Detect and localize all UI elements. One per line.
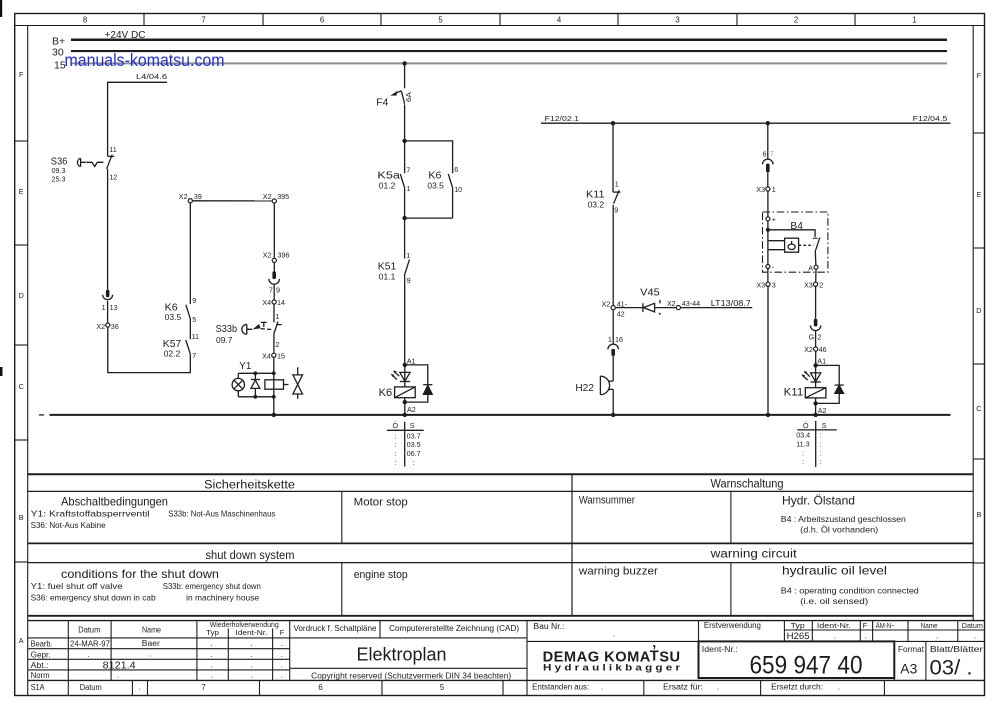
svg-text:Bearb.: Bearb. (31, 640, 53, 649)
connector 7|9 pin (272, 271, 276, 279)
svg-text:7: 7 (201, 683, 205, 692)
svg-text:F: F (977, 71, 982, 80)
Y1 top rail (238, 372, 273, 374)
wire - terminal to X3:3 (767, 269, 769, 283)
wire X3:3 to bus (767, 286, 769, 415)
svg-text:A: A (808, 263, 813, 272)
float stub top (768, 240, 785, 242)
svg-text:11: 11 (109, 145, 116, 154)
switch S36 NC contact (107, 155, 115, 169)
relay coil K11 (805, 388, 826, 398)
svg-text:Copyright reserved (Schutzverm: Copyright reserved (Schutzvermerk DIN 34… (311, 671, 511, 680)
svg-text:.: . (211, 650, 213, 659)
wire to K51 (404, 218, 406, 258)
svg-text:Datum: Datum (80, 683, 102, 692)
wire X2:46 to K11 coil A1 (815, 351, 817, 365)
K6 flyback diode branch (405, 365, 433, 402)
svg-text:09.7: 09.7 (216, 336, 233, 345)
K11 flyback diode branch (816, 365, 844, 403)
svg-text:395: 395 (277, 192, 289, 201)
fuse F4 (401, 91, 404, 104)
svg-text:03.4: 03.4 (796, 431, 810, 440)
connector 7|9 socket arc (269, 279, 280, 284)
svg-text:.: . (613, 630, 615, 639)
K11 LED indicator (802, 371, 821, 382)
K11 contact reference table (796, 421, 837, 467)
svg-text:03.5: 03.5 (407, 440, 421, 449)
svg-text:1: 1 (608, 335, 612, 344)
Y1 bottom rail (238, 396, 273, 398)
svg-text:Sicherheitskette: Sicherheitskette (204, 480, 295, 492)
svg-text:1: 1 (406, 251, 410, 260)
svg-text:.: . (211, 671, 213, 680)
contact K57 (186, 340, 191, 354)
svg-text:K6: K6 (379, 387, 393, 399)
svg-text:H y d r a u l i k b a g g e r: H y d r a u l i k b a g g e r (543, 663, 680, 674)
svg-text:Entstanden aus:: Entstanden aus: (532, 683, 589, 692)
svg-text::: : (820, 448, 822, 457)
node X2:41/42 (611, 306, 615, 310)
B4 float sensor box (785, 238, 799, 252)
svg-text:Abt.:: Abt.: (31, 661, 49, 670)
wire top rail to K6 branch (405, 141, 453, 173)
svg-text:X3: X3 (756, 280, 765, 289)
B4 float mechanical dashed link (799, 244, 814, 246)
svg-text:K6: K6 (165, 301, 178, 313)
wire S33b to X4:15 (273, 335, 275, 354)
svg-text:X2: X2 (263, 251, 272, 260)
svg-text:Typ: Typ (791, 621, 805, 630)
svg-text:K57: K57 (163, 338, 182, 350)
bottom bus leader dash (39, 414, 44, 416)
svg-text:Ersatz für:: Ersatz für: (663, 683, 703, 692)
svg-text:S33b: emergency shut down: S33b: emergency shut down (163, 581, 261, 591)
S36 pushbutton actuator (77, 158, 103, 166)
svg-text:7: 7 (192, 351, 196, 360)
svg-text:F4: F4 (376, 97, 388, 109)
svg-text:-: - (772, 263, 775, 272)
svg-text:K51: K51 (378, 261, 397, 273)
wire F4 to K5a junction (404, 104, 406, 141)
contact K6 (03.5) (186, 305, 191, 319)
svg-text:7: 7 (406, 165, 410, 174)
svg-text:F: F (863, 621, 868, 630)
svg-text:(d.h. Öl vorhanden): (d.h. Öl vorhanden) (800, 524, 878, 534)
connector 6|7 socket arc (763, 159, 774, 164)
wire K6 branch down (452, 188, 454, 218)
svg-text:30: 30 (52, 46, 64, 58)
svg-text:X4: X4 (262, 298, 271, 307)
svg-text:H265: H265 (787, 631, 810, 641)
connector 6|7 pin (766, 164, 770, 173)
contact K51 (404, 259, 409, 276)
relay coil K6 (395, 387, 416, 398)
node X2:46 (814, 347, 818, 351)
left margin row letters (19, 70, 24, 645)
svg-text:9: 9 (276, 286, 280, 295)
svg-text:+: + (772, 215, 776, 224)
svg-text:Ident-Nr.: Ident-Nr. (235, 628, 267, 637)
svg-text:.: . (251, 650, 253, 659)
svg-text:C: C (976, 404, 981, 413)
svg-text:.: . (251, 639, 253, 648)
svg-text:Name: Name (921, 621, 938, 630)
wire X4:14 to S33b (273, 304, 275, 322)
connector 1|13 socket arc (103, 295, 113, 300)
svg-text:.: . (717, 683, 719, 692)
svg-text:.: . (281, 671, 283, 680)
svg-text:Computererstellte Zeichnung (C: Computererstellte Zeichnung (CAD) (389, 624, 519, 633)
svg-text:46: 46 (819, 345, 827, 354)
B4 terminal A (814, 265, 818, 269)
svg-text:A1: A1 (407, 356, 416, 365)
svg-text:15: 15 (277, 351, 285, 360)
wire X3:1 to B4 (767, 191, 769, 217)
svg-text:S: S (822, 421, 827, 430)
svg-text:X4: X4 (262, 351, 271, 360)
S33b actuator dashed link (261, 328, 273, 331)
connector G|2 pin (814, 319, 818, 327)
svg-text:.: . (150, 649, 152, 658)
svg-text:Ö: Ö (393, 421, 399, 430)
svg-text:S1A: S1A (31, 683, 46, 692)
svg-text:2: 2 (794, 16, 798, 25)
svg-text:A2: A2 (818, 406, 827, 415)
bus line 15 (71, 62, 947, 64)
svg-text:Typ: Typ (206, 628, 219, 637)
junction dot K6 A2 (403, 400, 407, 404)
svg-text:D: D (19, 291, 24, 300)
svg-text::: : (394, 449, 396, 458)
connector 1|16 socket arc (608, 344, 619, 349)
wire + to internal junction (767, 221, 769, 230)
Y1 solenoid coil (265, 380, 284, 389)
wire X2:41 down to connector 1|16 (612, 310, 614, 344)
svg-text:1: 1 (102, 303, 106, 312)
wire K11 branch from F12 (612, 123, 614, 192)
svg-text:10: 10 (454, 185, 462, 194)
svg-text:X2: X2 (96, 322, 105, 331)
wire K6 contact up to X2:39 (189, 203, 191, 304)
node X3:3 (766, 282, 770, 286)
svg-text:8: 8 (83, 16, 87, 25)
svg-text:S33b: S33b (216, 323, 238, 335)
svg-text:.: . (117, 670, 119, 679)
wire connector to X3:1 (767, 172, 769, 187)
svg-text:43-44: 43-44 (682, 299, 700, 308)
junction dot K5a/K6 top (402, 139, 406, 143)
connector G|2 socket arc (810, 325, 820, 330)
svg-text:D: D (976, 306, 981, 315)
B4 level contact (813, 238, 820, 252)
svg-text:engine stop: engine stop (354, 569, 408, 581)
svg-text:X2: X2 (804, 345, 813, 354)
wire to LT13 (681, 307, 753, 309)
svg-text:Baer: Baer (142, 639, 160, 648)
svg-text:8121.4: 8121.4 (103, 660, 136, 671)
svg-text:.: . (281, 639, 283, 648)
svg-text:13: 13 (110, 303, 118, 312)
svg-text:Name: Name (142, 625, 161, 634)
svg-text:Norm: Norm (31, 671, 50, 680)
node X2:43-44 (676, 306, 680, 310)
inner border top line (15, 25, 985, 27)
svg-text:1: 1 (406, 184, 410, 193)
Y1 valve symbol (293, 367, 303, 399)
svg-text:.: . (865, 632, 867, 641)
Y1 suppressor diode (251, 373, 260, 397)
repeat-use dots column (211, 639, 283, 679)
node X3:1 (766, 187, 770, 191)
wire S36 to connector 1|13 (107, 169, 109, 290)
svg-text:F12/02.1: F12/02.1 (545, 114, 580, 123)
connector 1|13 pin (106, 290, 110, 297)
svg-text:02.2: 02.2 (164, 349, 181, 358)
svg-text:Elektroplan: Elektroplan (357, 644, 447, 665)
svg-text:6: 6 (763, 150, 767, 159)
svg-text:F: F (280, 628, 285, 637)
S33b pushbutton actuator (242, 324, 252, 334)
svg-text:K11: K11 (586, 189, 605, 201)
svg-text:L4/04.6: L4/04.6 (136, 72, 167, 81)
wire X2:36 down and loop bottom (108, 327, 191, 372)
contact K5a (404, 141, 406, 173)
svg-text:6: 6 (320, 16, 324, 25)
Ident-Nr emphasized box (699, 641, 895, 678)
wire K11 to X2:41 (612, 205, 614, 306)
junction dot K6 A1 (403, 363, 407, 367)
svg-text:warning circuit: warning circuit (710, 549, 798, 561)
node X2:36 (106, 323, 110, 327)
svg-text:5: 5 (192, 315, 196, 324)
svg-text:39: 39 (194, 192, 202, 201)
wire X4:15 down through Y1 to bus (273, 357, 275, 415)
svg-text:.: . (251, 671, 253, 680)
svg-text:Hydr. Ölstand: Hydr. Ölstand (782, 494, 855, 508)
svg-text:Format: Format (898, 645, 925, 654)
svg-text:X2: X2 (263, 192, 272, 201)
wire X2:39 to X2:395 (192, 200, 272, 202)
svg-text:B4 : Arbeitszustand geschlosse: B4 : Arbeitszustand geschlossen (781, 514, 906, 524)
svg-text:1: 1 (615, 180, 619, 189)
svg-text:K5a: K5a (377, 170, 400, 182)
wire X2:395 to X2:396 (273, 203, 275, 258)
svg-text:2: 2 (819, 280, 823, 289)
B4 terminal - (766, 265, 770, 269)
top margin column ticks (144, 14, 855, 26)
svg-text:Blatt/Blätter: Blatt/Blätter (930, 645, 984, 654)
node X3:2 (814, 282, 818, 286)
svg-text:01.1: 01.1 (379, 273, 396, 282)
svg-text:.: . (974, 632, 976, 641)
svg-text:G: G (809, 332, 815, 341)
svg-text:Y1: Kraftstoffabsperrventil: Y1: Kraftstoffabsperrventil (31, 509, 150, 519)
svg-text:5: 5 (438, 16, 443, 25)
bottom strip cell dividers (68, 680, 884, 695)
svg-text:warning buzzer: warning buzzer (578, 566, 658, 578)
svg-text:03.5: 03.5 (165, 313, 182, 322)
wire internal top rail to contact (768, 230, 815, 237)
svg-text:conditions for the shut down: conditions for the shut down (61, 567, 219, 581)
node junction F12/B4 (766, 121, 770, 125)
svg-text:S: S (410, 421, 415, 430)
wire K51 to K6 coil (404, 276, 406, 365)
right margin row letters (976, 71, 981, 519)
svg-text:.: . (211, 660, 213, 669)
svg-text:.: . (211, 639, 213, 648)
svg-text:03.5: 03.5 (427, 181, 444, 190)
svg-text:.: . (251, 660, 253, 669)
svg-text:X2: X2 (602, 299, 611, 308)
svg-text:Ö: Ö (803, 421, 809, 430)
svg-text:(i.e. oil sensed): (i.e. oil sensed) (800, 596, 868, 606)
svg-text:1: 1 (275, 312, 279, 321)
svg-text:Motor stop: Motor stop (354, 497, 408, 509)
svg-text:1: 1 (912, 16, 916, 25)
svg-text:01.2: 01.2 (379, 181, 396, 190)
svg-text:V45: V45 (640, 287, 660, 299)
svg-text:.: . (834, 632, 836, 641)
junction dot H22/bus (611, 413, 615, 417)
svg-text:S36: Not-Aus Kabine: S36: Not-Aus Kabine (31, 520, 106, 530)
wire bottom rail of parallel pair (405, 217, 453, 219)
bottom strip column numbers (201, 683, 445, 692)
svg-text:Ident-Nr.:: Ident-Nr.: (702, 645, 738, 654)
svg-text:B4 : operating condition conne: B4 : operating condition connected (781, 586, 919, 596)
svg-text::: : (802, 457, 804, 466)
svg-text:X2: X2 (179, 192, 188, 201)
svg-text:S36: emergency shut down in ca: S36: emergency shut down in cab (31, 592, 156, 602)
svg-text:14: 14 (277, 298, 285, 307)
svg-text:B: B (19, 513, 24, 522)
svg-text:.: . (139, 682, 141, 691)
bottom bus wire (0V) (50, 414, 951, 416)
bus line 30 (71, 50, 947, 52)
svg-text:03.2: 03.2 (588, 200, 605, 209)
svg-text:7: 7 (770, 149, 774, 158)
svg-text:7: 7 (269, 286, 273, 295)
svg-text::: : (394, 458, 396, 467)
svg-text::: : (820, 457, 822, 466)
svg-text:K11: K11 (784, 387, 804, 399)
inner border left (27, 26, 29, 696)
svg-text:25.3: 25.3 (52, 174, 66, 183)
svg-text:12: 12 (109, 173, 117, 182)
wire X2:396 to connector 7|9 (273, 263, 275, 272)
svg-text:3: 3 (772, 280, 776, 289)
svg-text:4: 4 (557, 16, 562, 25)
svg-text:Vordruck f. Schaltpläne: Vordruck f. Schaltpläne (294, 624, 377, 633)
wire B4 branch from F12 (767, 123, 769, 159)
svg-text:Ersetzt durch:: Ersetzt durch: (771, 683, 823, 692)
junction dot K11 A1 (813, 363, 817, 367)
svg-text:Datum: Datum (78, 625, 100, 634)
svg-text:B: B (977, 510, 982, 519)
svg-text:06.7: 06.7 (407, 449, 421, 458)
svg-text:396: 396 (278, 251, 290, 260)
wire through LED to K11 coil (815, 365, 817, 387)
svg-text:03/ .: 03/ . (930, 657, 973, 680)
svg-text:X2: X2 (667, 299, 676, 308)
svg-text:Y1: fuel shut off valve: Y1: fuel shut off valve (31, 581, 123, 591)
wire between K57 and K6 contacts (189, 319, 191, 340)
wire L4 stub horizontal (108, 82, 167, 156)
wire connector to X2:36 (107, 301, 109, 323)
svg-text:9: 9 (614, 206, 618, 215)
svg-text:5: 5 (440, 683, 445, 692)
svg-text:H22: H22 (575, 382, 594, 394)
scan artifact top-left edge (0, 0, 2, 17)
wire 15 bus to fuse F4 (404, 63, 406, 88)
S33b plunger tee (261, 322, 267, 327)
junction dot X3:3/bus (766, 413, 770, 417)
Y1 coil link stub (284, 384, 289, 386)
svg-text:2: 2 (817, 332, 821, 341)
svg-text:Warnsummer: Warnsummer (579, 494, 635, 506)
junction dot K6/bus (403, 413, 407, 417)
K6 contact reference table (387, 421, 424, 467)
junction dot K5a/K6 bottom (402, 216, 406, 220)
svg-text:Y1: Y1 (239, 360, 251, 372)
wire connector to X4:14 (273, 285, 275, 300)
svg-text::: : (820, 440, 822, 449)
connector 1|16 pin (611, 349, 615, 356)
diode V45 (615, 303, 676, 312)
left margin row ticks (15, 141, 28, 562)
junction dots Y1 top rail (254, 371, 258, 375)
svg-text:E: E (977, 190, 982, 199)
node X2:39 (188, 199, 192, 203)
svg-text:2: 2 (275, 340, 279, 349)
right margin row ticks (973, 133, 984, 563)
node X2:396 (272, 258, 276, 262)
node X4:15 (272, 353, 276, 357)
svg-text:.: . (88, 650, 90, 659)
svg-text:11: 11 (192, 332, 199, 341)
junction dots Y1 bottom rail (254, 395, 258, 399)
svg-text:.: . (601, 683, 603, 692)
svg-text:X3: X3 (804, 280, 813, 289)
svg-text:Warnschaltung: Warnschaltung (711, 479, 784, 491)
svg-text:A: A (19, 636, 24, 645)
switch S33b contact (274, 322, 282, 335)
svg-text:hydraulic oil level: hydraulic oil level (782, 564, 887, 578)
svg-text:Erstverwendung: Erstverwendung (704, 621, 761, 630)
svg-text:6: 6 (454, 165, 458, 174)
S33b actuator wedge (253, 324, 261, 330)
svg-text:A2: A2 (407, 405, 416, 414)
svg-text::: : (394, 440, 396, 449)
node X4:14 (272, 300, 276, 304)
svg-text::: : (802, 448, 804, 457)
svg-text:1: 1 (772, 185, 776, 194)
svg-text:Gepr.: Gepr. (31, 650, 51, 659)
svg-text:LT13/08.7: LT13/08.7 (711, 299, 751, 308)
svg-text:A1: A1 (817, 357, 826, 366)
svg-text::: : (412, 458, 414, 467)
svg-text:.: . (838, 683, 840, 692)
svg-text:9: 9 (407, 276, 411, 285)
B4 terminal + (766, 217, 770, 221)
contact K11 (613, 190, 620, 203)
svg-text:F12/04.5: F12/04.5 (913, 114, 948, 123)
wire H22 to bus (612, 389, 614, 415)
svg-text:S33b: Not-Aus Maschinenhaus: S33b: Not-Aus Maschinenhaus (168, 509, 275, 519)
inner border right (972, 26, 974, 621)
buzzer H22 (600, 376, 613, 394)
wire connector to X2:46 (815, 331, 817, 347)
wire contact to terminal A (814, 252, 817, 265)
